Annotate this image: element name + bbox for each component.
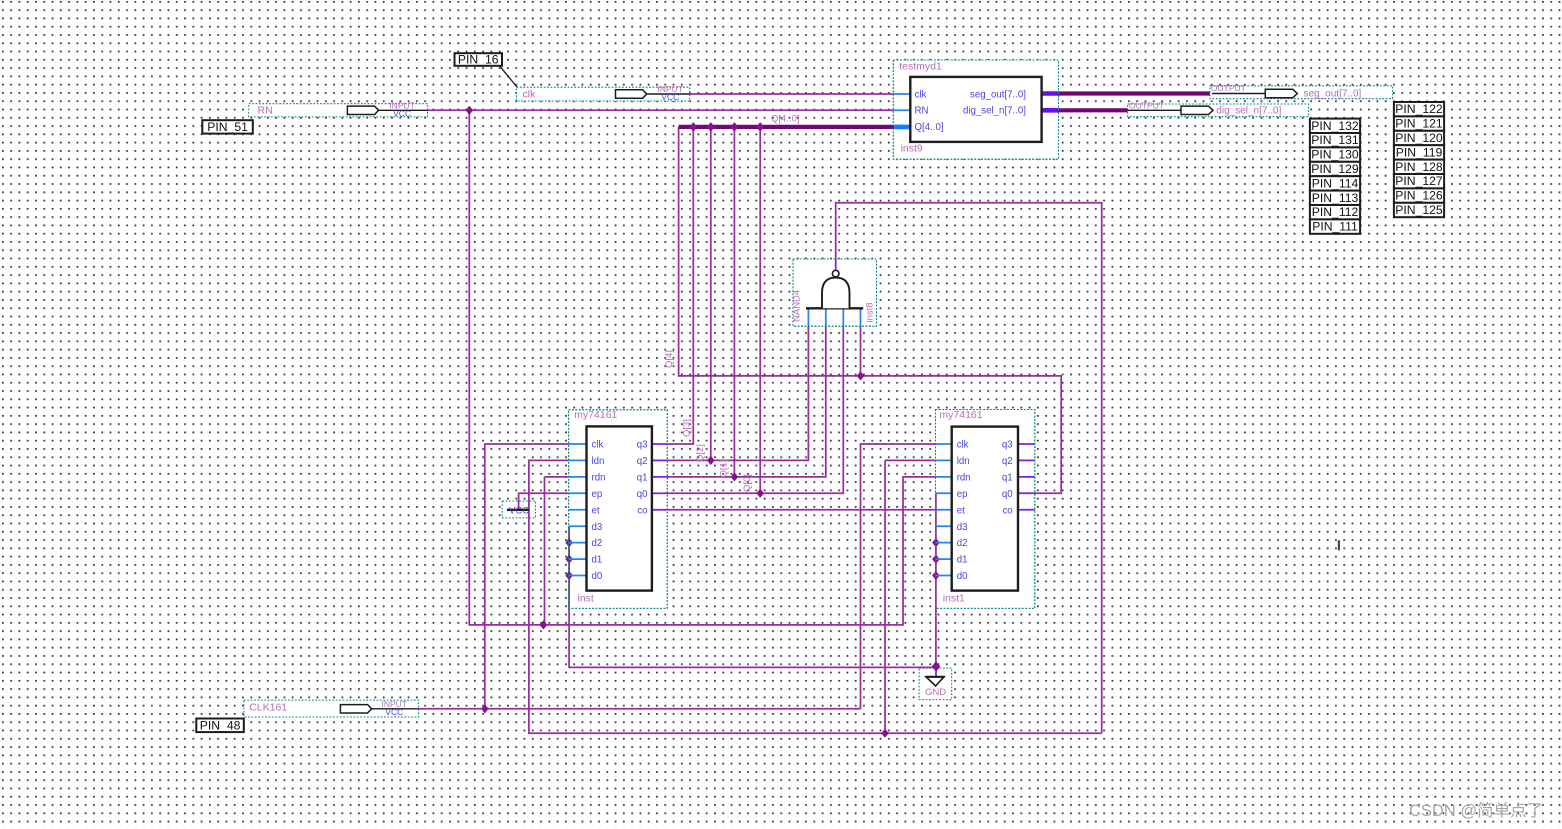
svg-text:PIN_113: PIN_113 — [1312, 191, 1359, 205]
svg-text:q3: q3 — [637, 440, 648, 451]
svg-text:Q[4..0]: Q[4..0] — [771, 114, 800, 125]
svg-text:PIN_121: PIN_121 — [1395, 117, 1443, 131]
svg-text:PIN_51: PIN_51 — [207, 120, 248, 134]
svg-text:dig_sel_n[7..0]: dig_sel_n[7..0] — [963, 106, 1026, 117]
svg-text:ep: ep — [592, 489, 603, 500]
svg-text:clk: clk — [592, 440, 604, 451]
svg-text:PIN_131: PIN_131 — [1311, 133, 1359, 147]
svg-text:testmyd1: testmyd1 — [899, 61, 942, 73]
svg-text:inst: inst — [578, 593, 594, 605]
svg-text:PIN_128: PIN_128 — [1395, 160, 1443, 174]
svg-text:PIN_129: PIN_129 — [1311, 162, 1359, 176]
svg-text:inst8: inst8 — [865, 302, 876, 322]
svg-text:PIN_126: PIN_126 — [1395, 189, 1443, 203]
svg-text:et: et — [957, 505, 965, 516]
svg-text:dig_sel_n[7..0]: dig_sel_n[7..0] — [1216, 106, 1281, 117]
svg-text:d1: d1 — [957, 555, 968, 566]
svg-text:Q[0]: Q[0] — [742, 474, 753, 492]
svg-text:seg_out[7..0]: seg_out[7..0] — [1304, 88, 1362, 99]
svg-text:OUTPUT: OUTPUT — [1129, 100, 1164, 110]
svg-text:d3: d3 — [592, 522, 603, 533]
svg-text:PIN_120: PIN_120 — [1395, 131, 1443, 145]
svg-text:rdn: rdn — [592, 473, 606, 484]
svg-text:PIN_125: PIN_125 — [1395, 203, 1443, 217]
svg-text:NAND4: NAND4 — [792, 290, 803, 322]
svg-text:VCC: VCC — [385, 707, 403, 717]
svg-text:PIN_114: PIN_114 — [1312, 176, 1359, 190]
svg-text:clk: clk — [957, 440, 969, 451]
svg-text:PIN_127: PIN_127 — [1395, 174, 1443, 188]
svg-text:q2: q2 — [1002, 456, 1013, 467]
svg-text:co: co — [1002, 505, 1012, 516]
svg-text:inst9: inst9 — [901, 143, 923, 155]
svg-text:ep: ep — [957, 489, 968, 500]
svg-text:ldn: ldn — [592, 456, 605, 467]
svg-text:q0: q0 — [637, 489, 648, 500]
svg-text:PIN_48: PIN_48 — [200, 718, 241, 732]
svg-text:d0: d0 — [957, 571, 968, 582]
svg-text:seg_out[7..0]: seg_out[7..0] — [970, 89, 1026, 100]
svg-text:PIN_119: PIN_119 — [1396, 145, 1443, 159]
svg-text:my74161: my74161 — [574, 409, 617, 421]
svg-text:q1: q1 — [1002, 473, 1013, 484]
svg-text:my74161: my74161 — [939, 409, 982, 421]
svg-text:PIN_112: PIN_112 — [1312, 205, 1359, 219]
svg-text:CLK161: CLK161 — [249, 702, 287, 714]
svg-text:PIN_132: PIN_132 — [1311, 119, 1359, 133]
svg-text:RN: RN — [915, 106, 929, 117]
svg-text:d1: d1 — [592, 555, 603, 566]
svg-text:clk: clk — [915, 89, 927, 100]
svg-text:Q[3]: Q[3] — [681, 419, 692, 437]
svg-text:d3: d3 — [957, 522, 968, 533]
svg-text:et: et — [592, 505, 600, 516]
svg-text:co: co — [637, 505, 647, 516]
svg-text:ldn: ldn — [957, 456, 970, 467]
svg-text:Q[1]: Q[1] — [719, 460, 730, 478]
svg-text:q1: q1 — [637, 473, 648, 484]
svg-text:PIN_111: PIN_111 — [1312, 220, 1358, 234]
svg-text:PIN_130: PIN_130 — [1311, 148, 1359, 162]
svg-text:RN: RN — [258, 105, 273, 117]
svg-text:VCC: VCC — [393, 109, 411, 119]
svg-text:VCC: VCC — [661, 92, 679, 102]
svg-text:q0: q0 — [1002, 489, 1013, 500]
svg-text:Q[4]: Q[4] — [664, 350, 675, 368]
svg-text:Q[2]: Q[2] — [695, 444, 706, 462]
svg-text:inst1: inst1 — [943, 593, 965, 605]
svg-text:d0: d0 — [592, 571, 603, 582]
svg-text:PIN_16: PIN_16 — [458, 53, 499, 67]
svg-text:rdn: rdn — [957, 473, 971, 484]
svg-text:Q[4..0]: Q[4..0] — [915, 122, 944, 133]
svg-text:GND: GND — [925, 687, 946, 698]
svg-text:VCC: VCC — [509, 506, 529, 517]
svg-text:q2: q2 — [637, 456, 648, 467]
svg-text:q3: q3 — [1002, 440, 1013, 451]
svg-text:d2: d2 — [592, 538, 603, 549]
svg-text:CSDN @简单点了: CSDN @简单点了 — [1409, 801, 1543, 820]
svg-text:OUTPUT: OUTPUT — [1211, 83, 1246, 93]
svg-text:d2: d2 — [957, 538, 968, 549]
svg-text:clk: clk — [523, 89, 537, 101]
svg-text:PIN_122: PIN_122 — [1395, 102, 1443, 116]
